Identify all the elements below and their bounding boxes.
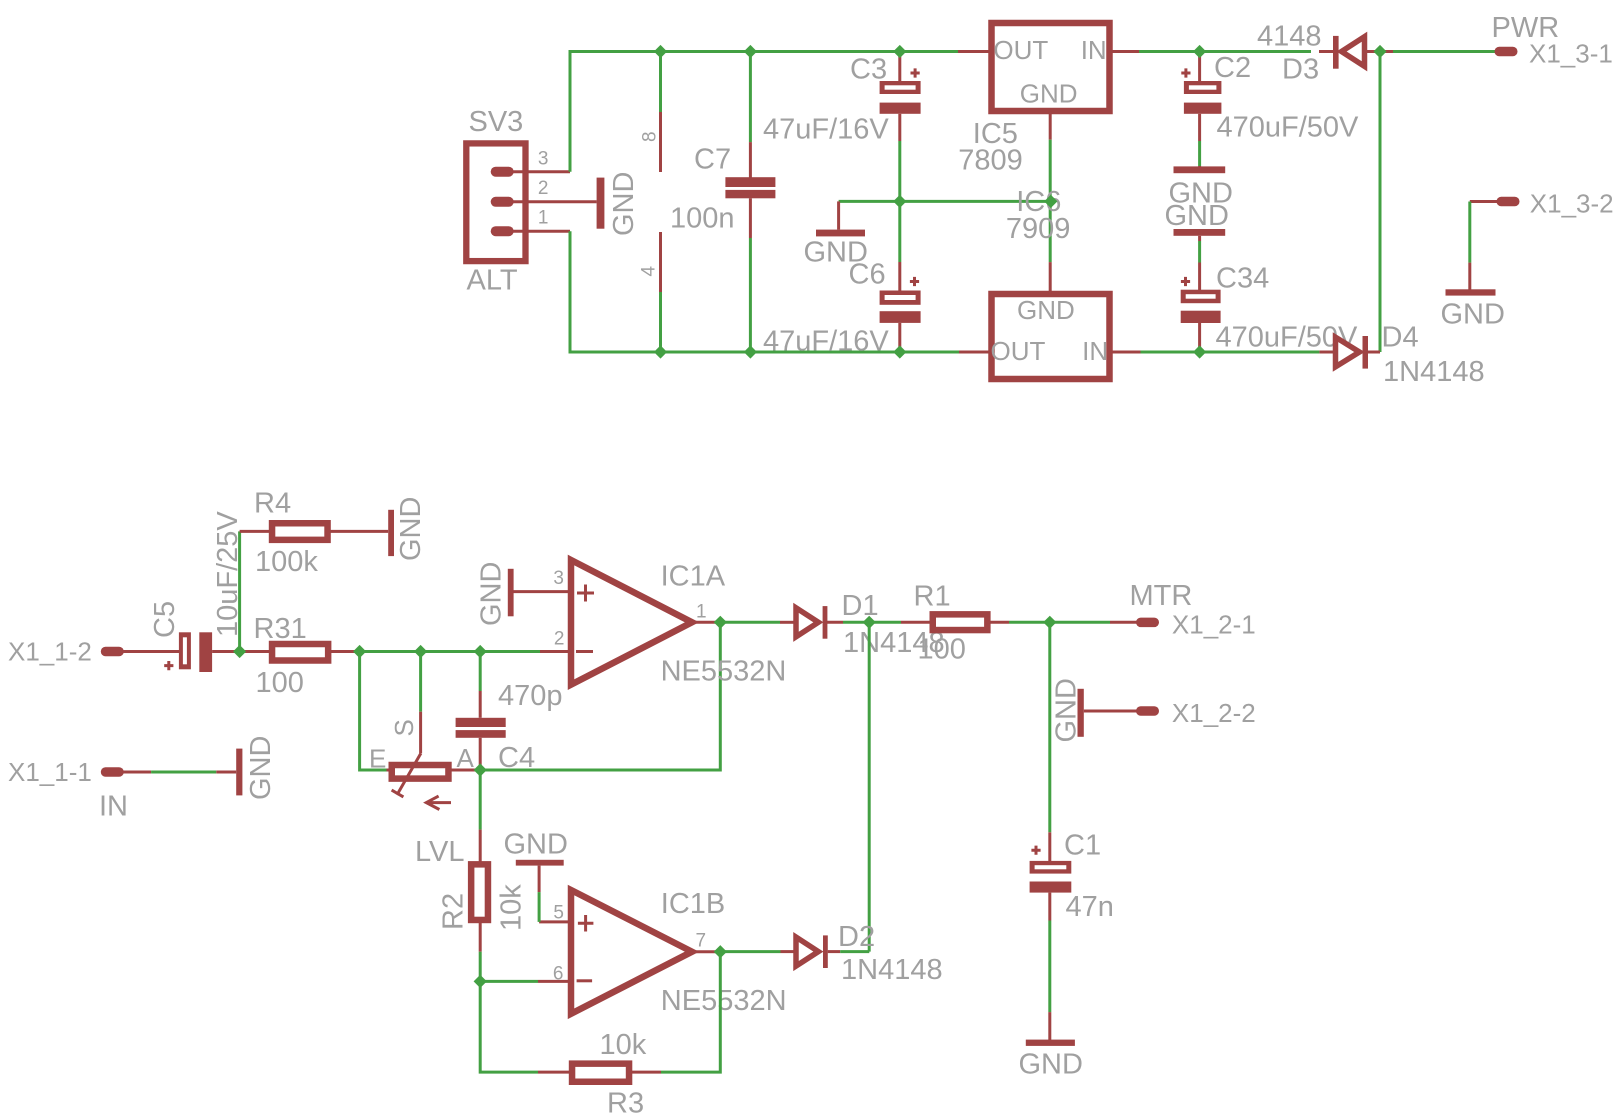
wire vertical D1-D2: [868, 622, 871, 951]
junction at C4 drop / IC1A pin 2: [474, 645, 487, 658]
junction at C3/C6 on ground rail: [893, 195, 906, 208]
trimmer potentiometer (LVL): [369, 712, 477, 868]
svg-text:C6: C6: [849, 259, 886, 291]
voltage regulator IC6 7909: [959, 186, 1141, 379]
wire pin6 node: [480, 980, 538, 983]
wire drop to pot S: [419, 652, 422, 712]
svg-text:GND: GND: [476, 562, 508, 626]
svg-text:47uF/16V: 47uF/16V: [763, 326, 889, 358]
svg-text:C5: C5: [149, 601, 181, 638]
svg-text:OUT: OUT: [991, 336, 1046, 366]
diode D3 1N4148: [1257, 21, 1393, 86]
svg-text:D3: D3: [1282, 54, 1319, 86]
wire feedback from IC1A output: [480, 625, 720, 770]
op-amp IC1B NE5532N: [538, 888, 787, 1017]
junction at power pin 4 on -rail: [654, 345, 667, 358]
svg-text:NE5532N: NE5532N: [661, 656, 787, 688]
diode D2 1N4148: [723, 921, 943, 986]
svg-text:X1_1-2: X1_1-2: [8, 637, 92, 667]
junction at IC5/IC6 GND pins: [1044, 195, 1057, 208]
svg-text:GND: GND: [1051, 678, 1083, 742]
junction at D3 output / PWR node: [1373, 45, 1386, 58]
resistor R31 100: [254, 613, 362, 699]
ground at R4: [388, 497, 427, 561]
svg-text:10k: 10k: [496, 884, 528, 931]
svg-text:A: A: [457, 743, 475, 773]
svg-text:S: S: [389, 719, 419, 736]
resistor R1 100: [901, 580, 1009, 665]
ground at IC1B pin 5: [504, 828, 568, 922]
capacitor C4 470p: [456, 680, 563, 774]
svg-text:470uF/50V: 470uF/50V: [1217, 112, 1360, 144]
junction at power pins 8/4 on +rail: [654, 45, 667, 58]
svg-text:4: 4: [639, 266, 660, 277]
svg-text:NE5532N: NE5532N: [661, 985, 787, 1017]
wire top rail left: [569, 52, 572, 172]
ground above C34 (mirrored): [1165, 200, 1229, 236]
IC1 power pin 8: [640, 52, 661, 173]
junction at C6 on -rail: [893, 345, 906, 358]
wire riser to R4: [238, 531, 241, 651]
svg-text:GND: GND: [395, 497, 427, 561]
svg-text:R31: R31: [254, 613, 307, 645]
svg-text:E: E: [369, 744, 386, 774]
resistor R4 100k: [240, 488, 389, 578]
junction dots top section: [654, 45, 1387, 359]
svg-text:7: 7: [696, 931, 707, 952]
svg-text:470p: 470p: [498, 680, 563, 712]
svg-text:R3: R3: [607, 1088, 644, 1120]
junction at IC1A output pin 1: [714, 616, 727, 629]
svg-text:ALT: ALT: [467, 264, 518, 296]
svg-text:OUT: OUT: [993, 35, 1048, 65]
junction at IC1B output pin 7: [714, 945, 727, 958]
svg-text:X1_1-1: X1_1-1: [8, 757, 92, 787]
terminal X1_3-2 with ground: [1441, 189, 1614, 331]
svg-text:C34: C34: [1216, 263, 1269, 295]
junction at R1/C1/MTR node: [1043, 616, 1056, 629]
svg-text:7909: 7909: [1006, 213, 1071, 245]
svg-text:R4: R4: [254, 488, 291, 520]
capacitor C5 10uF/25V: [149, 511, 270, 672]
svg-text:1N4148: 1N4148: [841, 954, 943, 986]
svg-text:3: 3: [553, 568, 564, 589]
resistor R2 10k (vertical): [438, 830, 528, 982]
svg-text:2: 2: [554, 629, 565, 650]
svg-text:IN: IN: [1081, 35, 1107, 65]
wire drop to pot E: [360, 652, 387, 771]
wire bottom rail left: [569, 231, 572, 352]
svg-text:100: 100: [256, 667, 304, 699]
svg-text:47uF/16V: 47uF/16V: [763, 114, 889, 146]
wire feedback loop via R3: [480, 981, 538, 1072]
svg-text:C3: C3: [850, 54, 887, 86]
svg-text:IC1A: IC1A: [661, 560, 726, 592]
svg-text:R1: R1: [914, 580, 951, 612]
junction at R2 / IC1B pin 6 / R3 node: [474, 975, 487, 988]
svg-text:GND: GND: [608, 172, 640, 236]
capacitor C2 470uF/50V: [1181, 52, 1359, 170]
svg-text:8: 8: [640, 131, 661, 142]
svg-text:3: 3: [538, 149, 549, 170]
junction at C3 on +rail: [893, 45, 906, 58]
wire top rail right of IC5: [1139, 50, 1311, 53]
capacitor C3 47uF/16V: [763, 52, 921, 202]
svg-text:2: 2: [538, 178, 549, 199]
svg-text:100: 100: [918, 634, 966, 666]
terminal X1_1-1 with ground: [8, 736, 277, 823]
ground at IC1A pin 3: [476, 562, 514, 626]
junction at C5/R4/R31 node: [233, 645, 246, 658]
svg-text:4148: 4148: [1257, 21, 1322, 53]
junction at D1/D2 cathodes node: [863, 616, 876, 629]
svg-text:GND: GND: [1017, 295, 1075, 325]
resistor R3 10k: [538, 1029, 661, 1120]
svg-text:X1_2-2: X1_2-2: [1172, 698, 1256, 728]
svg-text:C1: C1: [1064, 830, 1101, 862]
svg-text:R2: R2: [438, 893, 470, 930]
terminal X1_1-2 (IN signal): [8, 637, 179, 667]
svg-text:GND: GND: [504, 828, 568, 860]
svg-text:47n: 47n: [1066, 891, 1114, 923]
capacitor C6 47uF/16V: [763, 201, 921, 357]
junction at pot E drop: [353, 645, 366, 658]
connector SV3: [466, 106, 596, 296]
wire drop to C4: [479, 652, 482, 692]
IC1 power pin 4: [639, 232, 661, 352]
junction at C34 on -rail: [1193, 345, 1206, 358]
capacitor C34 470uF/50V: [1181, 236, 1358, 354]
junction at C7 on +rail: [744, 45, 757, 58]
svg-text:10k: 10k: [600, 1029, 647, 1061]
op-amp IC1A NE5532N: [512, 560, 786, 688]
junction at C2 on +rail: [1193, 45, 1206, 58]
diode D4 1N4148: [1319, 322, 1484, 389]
svg-text:C7: C7: [694, 144, 731, 176]
svg-text:D2: D2: [838, 921, 875, 953]
junction dots bottom section: [233, 616, 1056, 988]
svg-text:IN: IN: [1082, 336, 1108, 366]
wire vertical D3/D4 output: [1379, 52, 1382, 353]
svg-text:6: 6: [553, 964, 564, 985]
svg-text:IN: IN: [99, 790, 128, 822]
svg-text:D4: D4: [1382, 322, 1419, 354]
svg-text:MTR: MTR: [1130, 580, 1193, 612]
capacitor C7 100n: [670, 52, 775, 353]
svg-text:1: 1: [538, 208, 549, 229]
wire bottom rail right of IC6: [1141, 351, 1320, 354]
ground + terminal X1_2-2: [1051, 678, 1256, 742]
svg-text:GND: GND: [1441, 298, 1505, 330]
svg-text:GND: GND: [1020, 79, 1078, 109]
svg-text:5: 5: [553, 903, 564, 924]
svg-text:GND: GND: [1019, 1049, 1083, 1081]
svg-text:X1_3-2: X1_3-2: [1530, 189, 1614, 219]
wire drop to C1: [1048, 622, 1051, 832]
svg-text:GND: GND: [245, 736, 277, 800]
svg-text:GND: GND: [1165, 200, 1229, 232]
svg-text:100n: 100n: [670, 203, 735, 235]
capacitor C1 47n: [1030, 830, 1114, 1040]
svg-text:X1_3-1: X1_3-1: [1529, 39, 1613, 69]
wire R1 to MTR terminal: [1009, 621, 1110, 624]
svg-text:LVL: LVL: [415, 836, 464, 868]
voltage regulator IC5 7809: [958, 23, 1139, 201]
junction at C7 on -rail: [744, 345, 757, 358]
junction at C4 / pot A / feedback node: [474, 763, 487, 776]
svg-text:C2: C2: [1214, 52, 1251, 84]
ground below C1: [1019, 1040, 1083, 1081]
svg-text:100k: 100k: [255, 546, 318, 578]
ground at SV3 pin 2: [597, 172, 640, 236]
wire main line to op-amp: [361, 650, 540, 653]
ground below C2: [1169, 166, 1233, 209]
junction at pot S drop: [414, 645, 427, 658]
wire mid ground rail: [839, 200, 1051, 203]
svg-text:IC1B: IC1B: [661, 888, 725, 920]
terminal X1_2-1 (MTR): [1130, 580, 1256, 639]
terminal X1_3-1 (PWR): [1492, 12, 1613, 68]
wire from D1/D2 node to R1: [869, 621, 901, 624]
svg-text:7809: 7809: [958, 145, 1023, 177]
svg-text:X1_2-1: X1_2-1: [1172, 609, 1256, 639]
wire drop to R2: [479, 770, 482, 830]
svg-text:1N4148: 1N4148: [1383, 356, 1485, 388]
ground at mid rail: [804, 201, 868, 268]
svg-text:1: 1: [696, 602, 707, 623]
wire from D3 to PWR terminal: [1393, 50, 1497, 53]
svg-text:D1: D1: [842, 590, 879, 622]
svg-text:SV3: SV3: [469, 106, 524, 138]
diode D1 1N4148: [723, 590, 945, 659]
